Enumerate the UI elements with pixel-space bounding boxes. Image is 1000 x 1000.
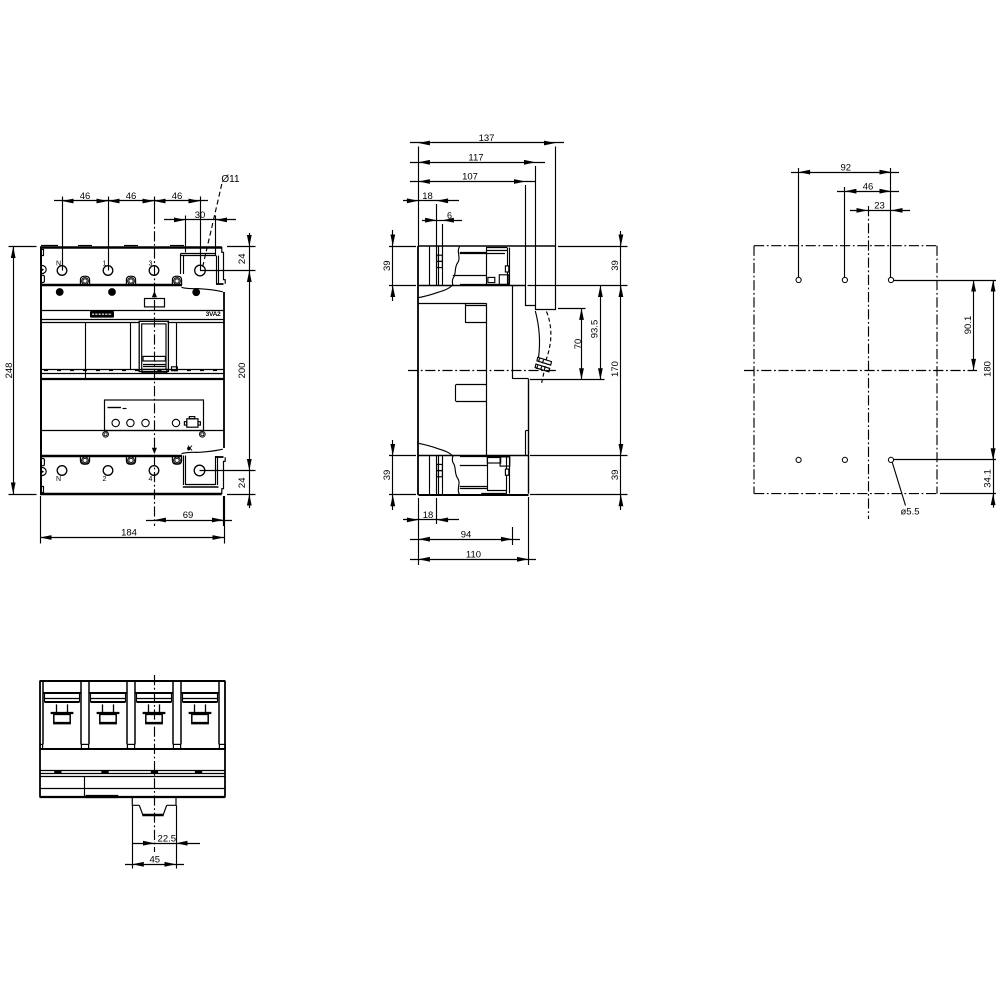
svg-text:110: 110 bbox=[466, 550, 481, 561]
svg-text:24: 24 bbox=[237, 254, 248, 265]
svg-text:23: 23 bbox=[874, 201, 885, 212]
svg-text:45: 45 bbox=[150, 855, 161, 866]
svg-text:6: 6 bbox=[447, 210, 452, 220]
svg-text:18: 18 bbox=[423, 510, 434, 521]
svg-text:70: 70 bbox=[573, 339, 584, 350]
svg-text:93.5: 93.5 bbox=[590, 320, 601, 339]
svg-text:ø5.5: ø5.5 bbox=[900, 507, 919, 518]
svg-text:184: 184 bbox=[121, 528, 137, 539]
svg-text:107: 107 bbox=[462, 172, 478, 183]
svg-text:30: 30 bbox=[195, 210, 206, 221]
svg-text:94: 94 bbox=[461, 529, 472, 540]
svg-text:22.5: 22.5 bbox=[158, 833, 177, 844]
svg-text:39: 39 bbox=[610, 470, 621, 481]
svg-text:N: N bbox=[56, 476, 61, 483]
svg-text:46: 46 bbox=[80, 191, 91, 202]
svg-text:117: 117 bbox=[468, 153, 483, 164]
svg-text:34.1: 34.1 bbox=[982, 469, 993, 488]
svg-text:24: 24 bbox=[237, 478, 248, 489]
svg-text:4: 4 bbox=[149, 476, 153, 483]
svg-text:3VA2: 3VA2 bbox=[206, 311, 221, 318]
svg-text:137: 137 bbox=[479, 133, 495, 144]
svg-text:3: 3 bbox=[149, 260, 153, 267]
svg-text:18: 18 bbox=[422, 191, 433, 202]
svg-text:39: 39 bbox=[382, 470, 393, 481]
svg-text:1: 1 bbox=[103, 260, 107, 267]
svg-text:39: 39 bbox=[610, 260, 621, 271]
svg-text:170: 170 bbox=[610, 361, 621, 377]
svg-text:46: 46 bbox=[172, 191, 183, 202]
svg-text:39: 39 bbox=[382, 260, 393, 271]
svg-text:Ø11: Ø11 bbox=[221, 174, 240, 185]
svg-text:180: 180 bbox=[982, 361, 993, 377]
svg-text:90.1: 90.1 bbox=[963, 316, 974, 335]
svg-text:46: 46 bbox=[863, 181, 874, 192]
svg-text:248: 248 bbox=[4, 363, 15, 379]
svg-text:46: 46 bbox=[126, 191, 137, 202]
svg-text:N: N bbox=[56, 260, 61, 267]
svg-text:92: 92 bbox=[841, 162, 852, 173]
svg-text:200: 200 bbox=[237, 363, 248, 379]
svg-text:69: 69 bbox=[183, 510, 194, 521]
svg-text:2: 2 bbox=[103, 476, 107, 483]
